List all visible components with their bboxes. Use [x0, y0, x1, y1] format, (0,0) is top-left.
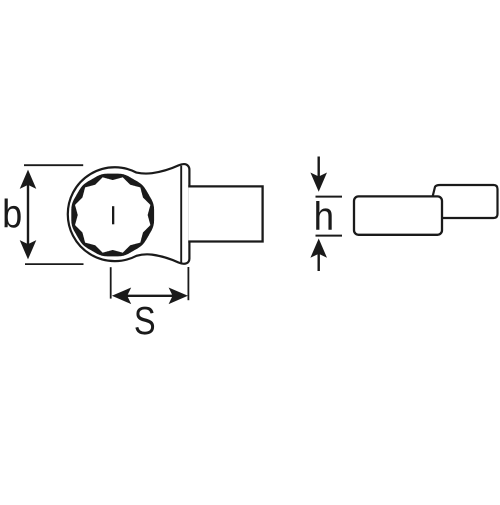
- side view: ring rear rectangle: [432, 185, 498, 218]
- h dimension: lower shaft: [318, 254, 320, 272]
- h label: [316, 201, 332, 230]
- tang (front view, open left): [188, 186, 262, 241]
- S dimension: shaft: [127, 295, 174, 297]
- h dimension: upper shaft: [318, 157, 320, 178]
- flange crease line: [180, 166, 182, 263]
- S dimension: left arrowhead: [112, 288, 131, 305]
- b dimension: bottom extension line: [25, 263, 84, 265]
- 12-point ring (black): [71, 174, 154, 257]
- b dimension: top extension line: [24, 164, 83, 166]
- S dimension: right arrowhead: [169, 288, 188, 305]
- b dimension: bottom arrowhead: [20, 240, 37, 259]
- ring wrench head outline (front view): [68, 164, 190, 264]
- S dimension: left extension line: [110, 267, 112, 298]
- h dimension: bottom arrowhead: [310, 239, 327, 258]
- S dimension: right extension line: [187, 267, 189, 300]
- b dimension: top arrowhead: [20, 170, 37, 189]
- b label: [5, 199, 21, 228]
- h dimension: bottom tick: [316, 235, 343, 237]
- b dimension: shaft: [27, 184, 29, 246]
- h dimension: top arrowhead: [310, 173, 327, 192]
- S label: [135, 307, 154, 335]
- h dimension: top tick: [316, 196, 343, 198]
- center mark: [112, 206, 114, 224]
- side view: tang rounded rectangle: [354, 196, 442, 234]
